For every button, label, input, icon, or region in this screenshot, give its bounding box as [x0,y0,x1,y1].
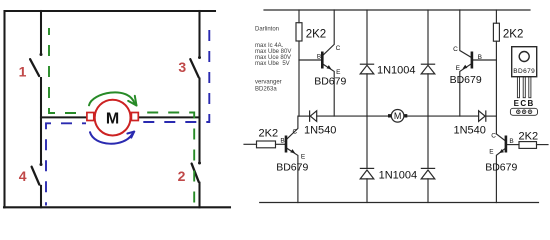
svg-text:2K2: 2K2 [503,28,523,40]
svg-text:B: B [317,53,321,60]
svg-text:1N1004: 1N1004 [379,170,418,182]
svg-text:Darlinton: Darlinton [255,27,279,33]
svg-text:vervanger: vervanger [255,79,282,85]
svg-text:3: 3 [178,59,186,75]
svg-text:B: B [280,138,284,145]
svg-text:BD679: BD679 [314,75,346,87]
svg-text:BD679: BD679 [513,68,535,75]
svg-text:BD679: BD679 [485,161,517,173]
svg-text:E: E [301,153,306,160]
svg-text:B: B [509,138,513,145]
svg-text:B: B [478,54,482,61]
svg-text:M: M [394,111,402,121]
svg-text:max Ube 5V: max Ube 5V [255,61,290,67]
svg-text:C: C [491,133,496,140]
svg-text:2K2: 2K2 [519,130,539,142]
svg-text:E: E [336,69,341,76]
svg-text:1N1004: 1N1004 [377,64,416,76]
svg-text:1N540: 1N540 [304,124,336,136]
svg-text:2K2: 2K2 [306,28,326,40]
svg-text:M: M [106,111,119,128]
svg-text:2K2: 2K2 [259,127,279,139]
svg-text:BD679: BD679 [276,161,308,173]
svg-text:4: 4 [19,168,27,184]
svg-text:E: E [489,149,494,156]
svg-text:2: 2 [178,168,186,184]
svg-text:BD263a: BD263a [255,87,277,93]
svg-text:C: C [293,128,298,135]
svg-text:BD679: BD679 [450,74,482,86]
svg-text:C: C [336,45,341,52]
svg-text:1: 1 [19,63,27,79]
svg-text:E: E [456,65,461,72]
svg-text:C: C [453,46,458,53]
svg-text:1N540: 1N540 [454,125,486,137]
svg-text:ECB: ECB [514,99,535,108]
